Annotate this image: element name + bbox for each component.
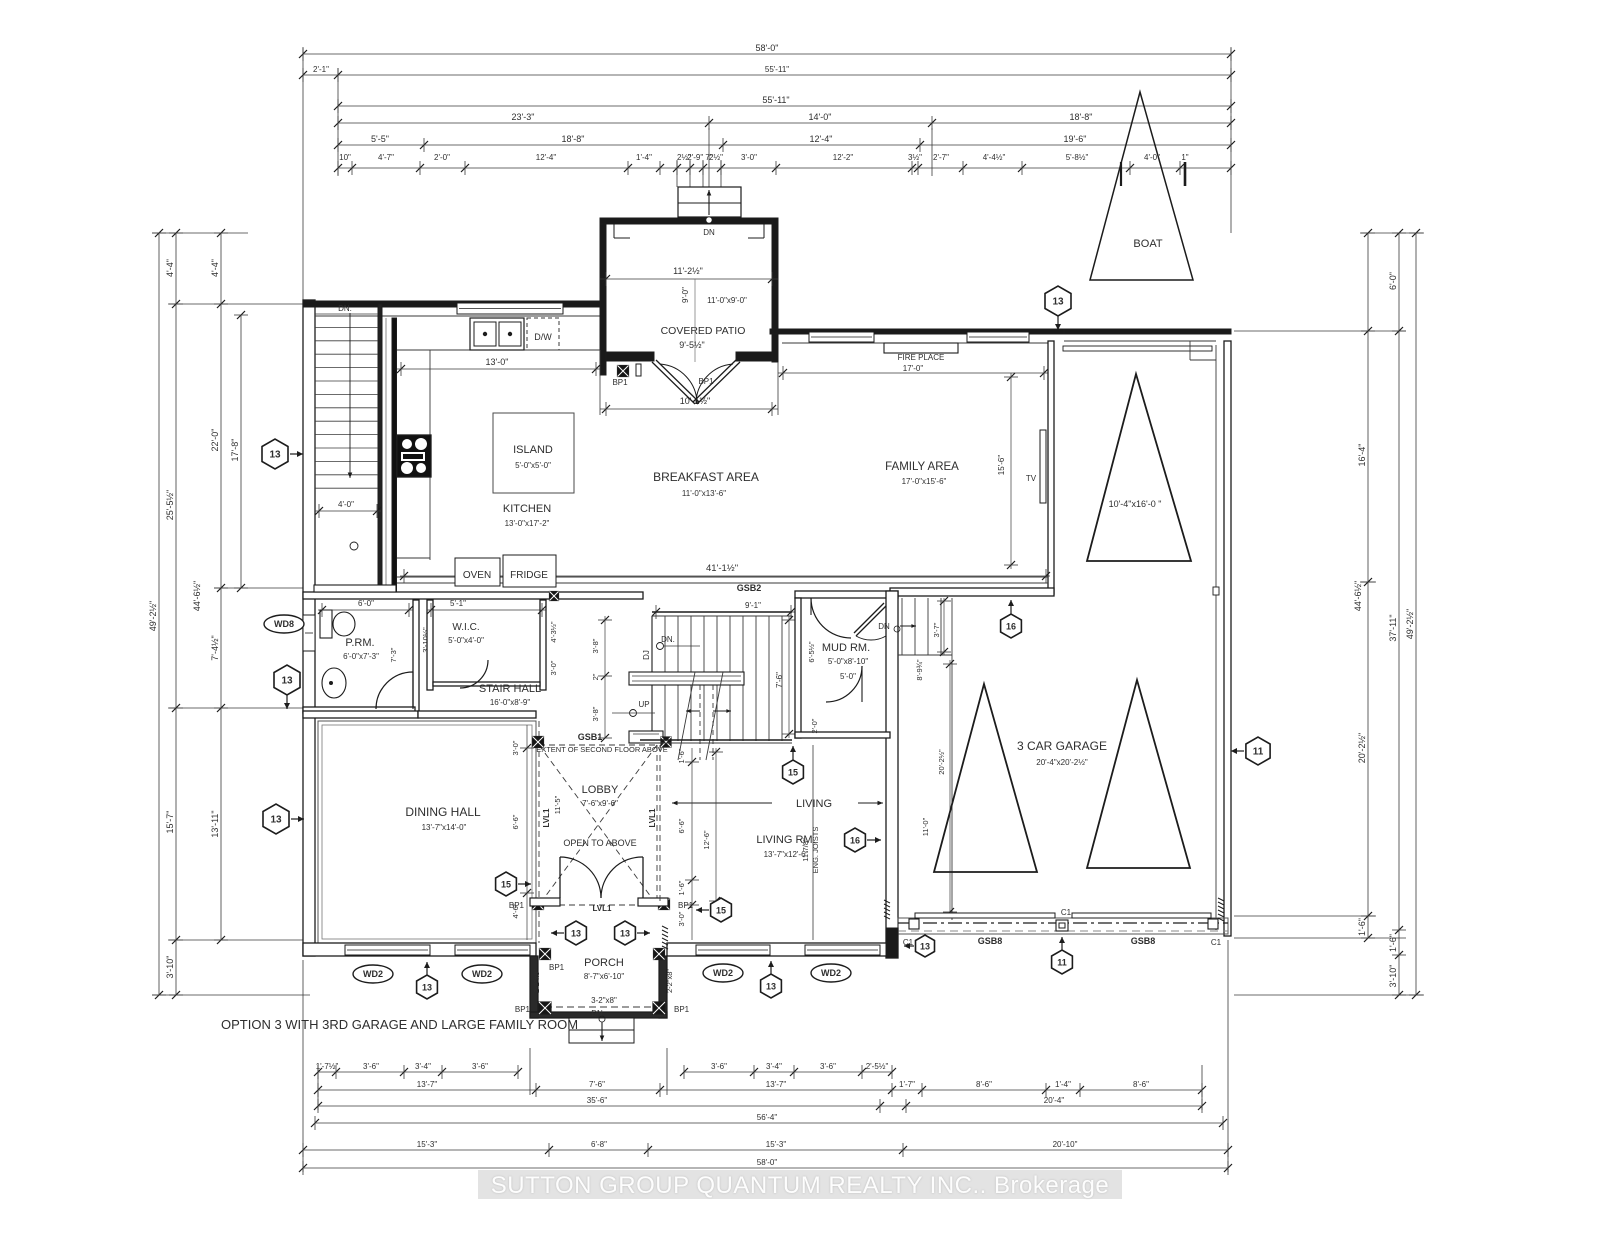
svg-text:19'-6": 19'-6" [1064, 134, 1087, 144]
dim: 15-6 family vertical [1010, 373, 1012, 569]
wall: stair south (GSB1 line) [640, 739, 792, 741]
wall: patio north [600, 218, 778, 224]
svg-text:15: 15 [788, 768, 798, 778]
svg-text:2'-1": 2'-1" [313, 65, 329, 74]
svg-text:16'-4": 16'-4" [1357, 444, 1367, 467]
garage door header GSB8 right [1072, 913, 1211, 918]
post: BP1 patio [618, 366, 629, 377]
window: dining south 1 [345, 945, 430, 955]
dimension row: 2'-1" / 55'-11" [299, 65, 1235, 82]
svg-text:10": 10" [339, 153, 351, 162]
small rect fixture at patio [636, 364, 641, 376]
svg-text:DN: DN [878, 622, 890, 631]
post: stair bottom X [661, 737, 671, 747]
svg-text:LVL1: LVL1 [542, 808, 551, 828]
post: C1 mid [1056, 920, 1068, 931]
svg-text:58'-0": 58'-0" [757, 1158, 778, 1167]
post: BP1 at extent corner [533, 737, 544, 748]
svg-text:20'-4": 20'-4" [1044, 1096, 1065, 1105]
svg-text:LOBBY: LOBBY [582, 784, 619, 796]
svg-text:37'-11": 37'-11" [1388, 614, 1398, 641]
svg-text:9'-1": 9'-1" [745, 601, 761, 610]
dimension column right: 16-4/20-2/1-6 [1357, 229, 1375, 942]
svg-text:18'-8": 18'-8" [562, 134, 585, 144]
svg-text:15: 15 [501, 880, 511, 890]
door knob circle at landing [350, 542, 358, 550]
svg-text:15: 15 [716, 906, 726, 916]
extension line: right dims horizontals [1360, 232, 1424, 234]
door: P.RM. swing [376, 672, 413, 709]
extension line: bottom-right [1227, 940, 1229, 1172]
svg-text:2-2"x8": 2-2"x8" [532, 969, 541, 993]
svg-text:17'-8": 17'-8" [230, 439, 240, 462]
dim: 3-7 garage steps [943, 598, 945, 655]
svg-text:3'-6": 3'-6" [363, 1062, 379, 1071]
sill mark on garage east inner line [1213, 587, 1219, 595]
svg-text:16: 16 [850, 836, 860, 846]
svg-text:20'-2½": 20'-2½" [937, 749, 946, 775]
patio corner notch left [613, 224, 615, 238]
svg-text:3-2"x8": 3-2"x8" [591, 996, 617, 1005]
wall: dining north east part [418, 711, 536, 718]
svg-text:OVEN: OVEN [463, 570, 491, 581]
extension: thick marks near 4-0 dim [1120, 162, 1122, 186]
svg-text:13'-0"x17'-2": 13'-0"x17'-2" [505, 519, 550, 528]
svg-text:BP1: BP1 [698, 377, 714, 386]
wall: mud room north [795, 591, 898, 598]
svg-text:3'-10": 3'-10" [1388, 965, 1398, 988]
svg-text:6'-8": 6'-8" [591, 1140, 607, 1149]
post: C1 left [909, 919, 919, 929]
staircase: cut diagonals [678, 672, 695, 760]
wall: P.RM. south [303, 707, 415, 713]
svg-text:55'-11": 55'-11" [765, 65, 789, 74]
marker: 16 family south [1001, 600, 1022, 638]
staircase: bottom newel box [629, 731, 663, 743]
svg-text:3 CAR GARAGE: 3 CAR GARAGE [1017, 739, 1107, 753]
svg-text:13'-7": 13'-7" [766, 1080, 787, 1089]
svg-text:BP1: BP1 [515, 1005, 531, 1014]
svg-text:18'-8": 18'-8" [1070, 112, 1093, 122]
svg-text:TV: TV [1026, 474, 1037, 483]
svg-text:FAMILY AREA: FAMILY AREA [885, 461, 959, 473]
svg-text:WD2: WD2 [472, 969, 492, 979]
wall: P.RM. east [413, 600, 419, 712]
svg-text:20'-4"x20'-2½": 20'-4"x20'-2½" [1036, 758, 1088, 767]
svg-text:5'-0": 5'-0" [840, 672, 856, 681]
wall: W.I.C. west [427, 600, 433, 690]
svg-text:41'-1½": 41'-1½" [706, 563, 738, 574]
spring symbol: garage wall corner [1218, 898, 1224, 921]
svg-text:3'-4": 3'-4" [415, 1062, 431, 1071]
svg-text:DJ: DJ [642, 650, 651, 660]
dimension column left: 49'-2half overall [148, 229, 166, 999]
svg-text:FIRE PLACE: FIRE PLACE [898, 353, 945, 362]
garage east inner line [1215, 345, 1217, 930]
dimension row: 5'-5"/18'-8"/12'-4"/19'-6" [334, 134, 1235, 152]
svg-text:55'-11": 55'-11" [762, 95, 789, 105]
svg-text:9'-0": 9'-0" [681, 287, 690, 303]
spring symbol: living wall east [884, 900, 890, 919]
marker: 13 dining south [417, 962, 438, 999]
window: living south 2 [805, 945, 880, 955]
marker: WD2 living 1 [703, 964, 743, 982]
door: front entry double swing [559, 857, 561, 898]
dimension row bottom: 35-6/20-4 [314, 1096, 1206, 1113]
staircase: west boundary [651, 616, 653, 741]
tree: garage upper [1087, 374, 1191, 561]
svg-text:WD8: WD8 [274, 619, 294, 629]
extension line: left dims horizontals [152, 232, 248, 234]
marker: 13 living south [761, 961, 782, 998]
svg-text:11-7/8": 11-7/8" [801, 838, 810, 862]
svg-text:ISLAND: ISLAND [513, 444, 553, 456]
svg-text:3'-6": 3'-6" [820, 1062, 836, 1071]
living: west dashed boundary [659, 745, 661, 905]
extension line: chimney verticals [689, 160, 691, 187]
wall: porch west [530, 956, 538, 1018]
fixture: toilet bowl [333, 612, 355, 636]
svg-text:GSB8: GSB8 [1131, 936, 1156, 946]
svg-text:SUTTON GROUP QUANTUM REALTY IN: SUTTON GROUP QUANTUM REALTY INC.. Broker… [491, 1172, 1110, 1199]
svg-text:13'-7"x14'-0": 13'-7"x14'-0" [422, 823, 467, 832]
wall: mud room south [795, 732, 890, 738]
svg-text:3'-8": 3'-8" [591, 706, 600, 721]
island [493, 413, 574, 493]
svg-text:8'-9¾": 8'-9¾" [915, 659, 924, 681]
tree: garage left [934, 684, 1037, 872]
post: BP1 porch NE [654, 949, 665, 960]
door: mud room diagonal leaf [856, 606, 886, 636]
extension line: x=338 [337, 68, 339, 176]
post: BP1 porch SW [539, 1002, 551, 1014]
window: family north 1 [809, 332, 874, 342]
svg-text:3½": 3½" [908, 153, 922, 162]
boat delivery triangle [1090, 92, 1193, 280]
watermark band [478, 1170, 1122, 1199]
svg-text:5'-0"x4'-0": 5'-0"x4'-0" [448, 636, 484, 645]
patio corner notch right [763, 224, 765, 238]
svg-text:LIVING: LIVING [796, 798, 832, 810]
post: BP1 lobby left [533, 899, 544, 910]
svg-text:C1: C1 [1061, 908, 1072, 917]
kitchen counter: top edge [397, 349, 600, 351]
extension line: top-left corner [302, 48, 304, 300]
svg-text:8'-6": 8'-6" [1133, 1080, 1149, 1089]
svg-text:OPEN TO ABOVE: OPEN TO ABOVE [563, 838, 636, 848]
dim: 5-1 above WIC [427, 609, 546, 611]
svg-text:13: 13 [620, 929, 630, 939]
svg-text:3'-6": 3'-6" [472, 1062, 488, 1071]
wall: patio south partial right [736, 352, 772, 361]
svg-text:49'-2½": 49'-2½" [148, 601, 158, 631]
svg-text:COVERED PATIO: COVERED PATIO [661, 325, 746, 337]
svg-text:7'-3": 7'-3" [389, 647, 398, 662]
svg-text:D/W: D/W [534, 332, 552, 342]
svg-text:13: 13 [766, 982, 776, 992]
svg-text:1'-6": 1'-6" [677, 748, 686, 763]
wall: stair east boundary [378, 304, 382, 592]
svg-text:11: 11 [1253, 747, 1264, 758]
dim: 6-0 above P.RM. [318, 609, 413, 611]
svg-text:ENG. JOISTS: ENG. JOISTS [811, 827, 820, 874]
wall: porch east [659, 956, 667, 1018]
dimension row: 58'-0" overall top [299, 43, 1235, 61]
svg-text:6'-0": 6'-0" [358, 599, 374, 608]
beam line GSB2 [397, 576, 1048, 578]
fixture: cooktop stove [397, 435, 431, 477]
svg-text:15'-7": 15'-7" [165, 811, 175, 834]
dimension row bottom: 56-4 [311, 1113, 1227, 1130]
svg-text:5'-1": 5'-1" [450, 599, 466, 608]
wall: living SE corner block [886, 928, 898, 958]
dimension row: 23'-3"/14'-0"/18'-8" [334, 112, 1235, 130]
kitchen counter: left edge [429, 350, 431, 560]
svg-text:20'-2½": 20'-2½" [1357, 733, 1367, 763]
wall: W.I.C. south [433, 682, 540, 686]
post: BP1 lobby right [659, 899, 670, 910]
staircase: central treads [652, 612, 792, 741]
svg-text:4'-7": 4'-7" [378, 153, 394, 162]
svg-text:KITCHEN: KITCHEN [503, 503, 551, 515]
garage west line [951, 598, 953, 920]
svg-text:8'-7"x6'-10": 8'-7"x6'-10" [584, 972, 624, 981]
lobby: dashed extent rectangle [538, 721, 540, 943]
svg-text:11'-0"x13'-6": 11'-0"x13'-6" [682, 489, 726, 498]
svg-text:15'-3": 15'-3" [417, 1140, 438, 1149]
window sill: garage north long [1063, 346, 1212, 351]
wall: garage east exterior [1224, 341, 1231, 936]
dimension row: 55'-11" [334, 95, 1235, 113]
svg-text:WD2: WD2 [821, 968, 841, 978]
dim: 12-6 living second column [715, 748, 717, 905]
svg-text:2-2"x8": 2-2"x8" [665, 969, 674, 993]
svg-text:1'-7": 1'-7" [899, 1080, 915, 1089]
dimension row bottom small left [314, 1062, 522, 1079]
marker: 15 dining east [496, 872, 531, 896]
label: LIVING with arrows [672, 802, 772, 804]
svg-text:P.RM.: P.RM. [345, 637, 374, 649]
svg-text:C1: C1 [1211, 938, 1222, 947]
marker: 13 left P.RM. [274, 665, 300, 709]
svg-text:4'-3½": 4'-3½" [549, 621, 558, 643]
dim 41-1half [400, 575, 1050, 577]
marker: 13 left kitchen [262, 439, 303, 469]
svg-text:6'-0"x7'-3": 6'-0"x7'-3" [343, 652, 379, 661]
svg-text:8'-6": 8'-6" [976, 1080, 992, 1089]
tree: garage right [1087, 680, 1190, 868]
svg-text:44'-6½": 44'-6½" [192, 581, 202, 611]
marker: 16 living east [845, 828, 881, 852]
room outline: dining hall inner [318, 721, 536, 943]
marker: WD8 oval [264, 615, 304, 633]
patio dim 11-2half [600, 278, 778, 280]
svg-text:17'-0": 17'-0" [903, 364, 924, 373]
fireplace [884, 343, 958, 353]
wall: lobby south jambs [530, 898, 560, 906]
svg-text:13: 13 [920, 942, 930, 952]
wall: family south [890, 588, 1054, 596]
svg-text:OPTION 3 WITH 3RD GARAGE AND L: OPTION 3 WITH 3RD GARAGE AND LARGE FAMIL… [221, 1017, 578, 1032]
svg-text:7'-6": 7'-6" [775, 672, 784, 688]
patio center line [694, 279, 696, 362]
svg-text:11'-2½": 11'-2½" [673, 266, 703, 276]
svg-text:3'-8": 3'-8" [591, 638, 600, 653]
svg-text:2'-5½": 2'-5½" [866, 1062, 889, 1071]
extension line: bottom-left [302, 960, 304, 1172]
window: family north 2 [967, 332, 1029, 342]
svg-text:44'-6½": 44'-6½" [1353, 581, 1363, 611]
marker: 13 left dining [263, 804, 304, 834]
marker: 11 garage east [1231, 737, 1270, 765]
svg-text:16'-0"x8'-9": 16'-0"x8'-9" [490, 698, 530, 707]
svg-text:13'-7": 13'-7" [417, 1080, 438, 1089]
svg-text:13: 13 [269, 450, 281, 461]
garage north inner corner lines [1189, 341, 1191, 360]
wall: family area east [1048, 341, 1054, 594]
svg-text:2'-7": 2'-7" [933, 153, 949, 162]
marker: 13 porch east [615, 921, 650, 945]
svg-text:5'-0"x5'-0": 5'-0"x5'-0" [515, 461, 551, 470]
wall: left exterior [303, 300, 315, 956]
svg-text:4'-4": 4'-4" [210, 259, 220, 277]
svg-text:BP1: BP1 [612, 378, 628, 387]
svg-text:10'-4"x16'-0 ": 10'-4"x16'-0 " [1109, 499, 1162, 509]
dims left of stair: 3-8/2/3-8 [604, 616, 606, 738]
svg-text:3'-0": 3'-0" [511, 740, 520, 755]
svg-text:1'-6": 1'-6" [1388, 934, 1398, 952]
marker: 13 porch west [551, 921, 586, 945]
svg-text:WD2: WD2 [363, 969, 383, 979]
svg-text:15'-3": 15'-3" [766, 1140, 787, 1149]
svg-text:13'-0": 13'-0" [486, 357, 509, 367]
marker: WD2 dining 2 [462, 965, 502, 983]
wall: south exterior left (dining) [303, 943, 536, 956]
svg-text:5'-5": 5'-5" [371, 134, 389, 144]
marker: WD2 living 2 [811, 964, 851, 982]
wall: W.I.C. east [540, 600, 546, 690]
dimension column right: 49'-2half overall [1405, 229, 1423, 999]
svg-text:3'-4": 3'-4" [766, 1062, 782, 1071]
svg-text:GSB8: GSB8 [978, 936, 1003, 946]
svg-text:5'-8½": 5'-8½" [1066, 153, 1089, 162]
window: left wall at P.RM. (WD8) [303, 615, 315, 651]
wall: patio east [772, 218, 778, 362]
wall: kitchen west heavy [392, 318, 397, 592]
marker: 15 living north [783, 746, 804, 784]
porch steps [569, 1018, 634, 1030]
steps: mud room to garage [898, 598, 952, 655]
svg-text:6'-6": 6'-6" [677, 818, 686, 833]
svg-text:11: 11 [1057, 958, 1067, 968]
svg-text:13: 13 [281, 676, 293, 687]
marker: 13 garage SW [904, 935, 935, 957]
svg-text:35'-6": 35'-6" [587, 1096, 608, 1105]
svg-text:7'-6"x9'-6": 7'-6"x9'-6" [582, 799, 618, 808]
svg-text:GSB2: GSB2 [737, 583, 762, 593]
dimension row bottom: 15-3/6-8/15-3/20-10 [299, 1140, 1232, 1157]
dim: 7-6 right of stair [788, 616, 790, 738]
svg-text:BOAT: BOAT [1133, 238, 1162, 250]
svg-text:12'-4": 12'-4" [810, 134, 833, 144]
svg-text:20'-10": 20'-10" [1053, 1140, 1078, 1149]
door: W.I.C. [460, 660, 488, 688]
svg-text:UP: UP [638, 700, 649, 709]
dims right of dining: 3-0/6-6/4-6 [526, 725, 528, 940]
marker: WD2 dining 1 [353, 965, 393, 983]
svg-text:23'-3": 23'-3" [512, 112, 535, 122]
living joist line [812, 745, 814, 940]
svg-text:15'-6": 15'-6" [997, 455, 1006, 476]
kitchen counter: bottom [397, 557, 430, 559]
dim: 20-2half garage rotated [949, 660, 951, 916]
wall: mud room east / garage boundary [886, 591, 898, 958]
svg-text:13: 13 [422, 983, 432, 993]
svg-text:13: 13 [1052, 297, 1064, 308]
svg-text:BP1: BP1 [549, 963, 565, 972]
post: BP1 porch SE [653, 1002, 665, 1014]
svg-text:3'-0": 3'-0" [677, 911, 686, 926]
staircase: handrail [629, 672, 744, 685]
svg-text:6'-6": 6'-6" [511, 814, 520, 829]
svg-text:4'-4½": 4'-4½" [983, 153, 1006, 162]
dim line under fireplace [778, 372, 1049, 374]
svg-text:11'-5": 11'-5" [553, 795, 562, 814]
post: BP1 porch NW [540, 949, 551, 960]
svg-text:3'-6": 3'-6" [711, 1062, 727, 1071]
svg-text:4'-0": 4'-0" [338, 500, 354, 509]
post: C1 right [1208, 919, 1218, 929]
svg-text:WD2: WD2 [713, 968, 733, 978]
wall: garage front (south) [898, 918, 1228, 934]
dimension column right: 6-0/37-11/1-6/3-10 [1388, 229, 1406, 999]
svg-text:14'-0": 14'-0" [809, 112, 832, 122]
svg-text:DN: DN [591, 1009, 603, 1018]
svg-text:3'-0": 3'-0" [549, 660, 558, 675]
svg-text:PORCH: PORCH [584, 957, 624, 969]
wall: mud room west [795, 598, 801, 738]
svg-text:3'-0": 3'-0" [741, 153, 757, 162]
svg-text:13: 13 [571, 929, 581, 939]
svg-text:13: 13 [270, 815, 282, 826]
svg-text:MUD RM.: MUD RM. [822, 642, 870, 654]
dim: 13-0 kitchen [397, 368, 600, 370]
wall: family area north black band [770, 329, 1064, 334]
window: living south 1 [696, 945, 770, 955]
svg-text:W.I.C.: W.I.C. [452, 622, 479, 633]
svg-text:12'-4": 12'-4" [536, 153, 557, 162]
door: mud room south swing [826, 666, 862, 702]
svg-text:5'-0"x8'-10": 5'-0"x8'-10" [828, 657, 868, 666]
dimension column left: 17'-8" [230, 311, 248, 592]
staircase: dashed lines [699, 685, 701, 760]
wall: patio west [600, 218, 606, 375]
svg-text:BP1: BP1 [674, 1005, 690, 1014]
bay door: patio left leaf [652, 362, 695, 404]
dimension row: small top dims [334, 153, 1235, 175]
svg-text:3'-10": 3'-10" [165, 956, 175, 979]
svg-text:58'-0": 58'-0" [756, 43, 779, 53]
svg-text:DN.: DN. [338, 304, 352, 313]
window: kitchen north wall [457, 303, 563, 314]
svg-text:DINING HALL: DINING HALL [405, 805, 481, 819]
svg-text:56'-4": 56'-4" [757, 1113, 778, 1122]
marker: 15 living south [696, 898, 731, 922]
wall: patio south partial left [606, 352, 654, 361]
fixture: kitchen sink [470, 318, 524, 350]
svg-text:STAIR HALL: STAIR HALL [479, 683, 541, 695]
svg-text:3'-7": 3'-7" [932, 622, 941, 637]
